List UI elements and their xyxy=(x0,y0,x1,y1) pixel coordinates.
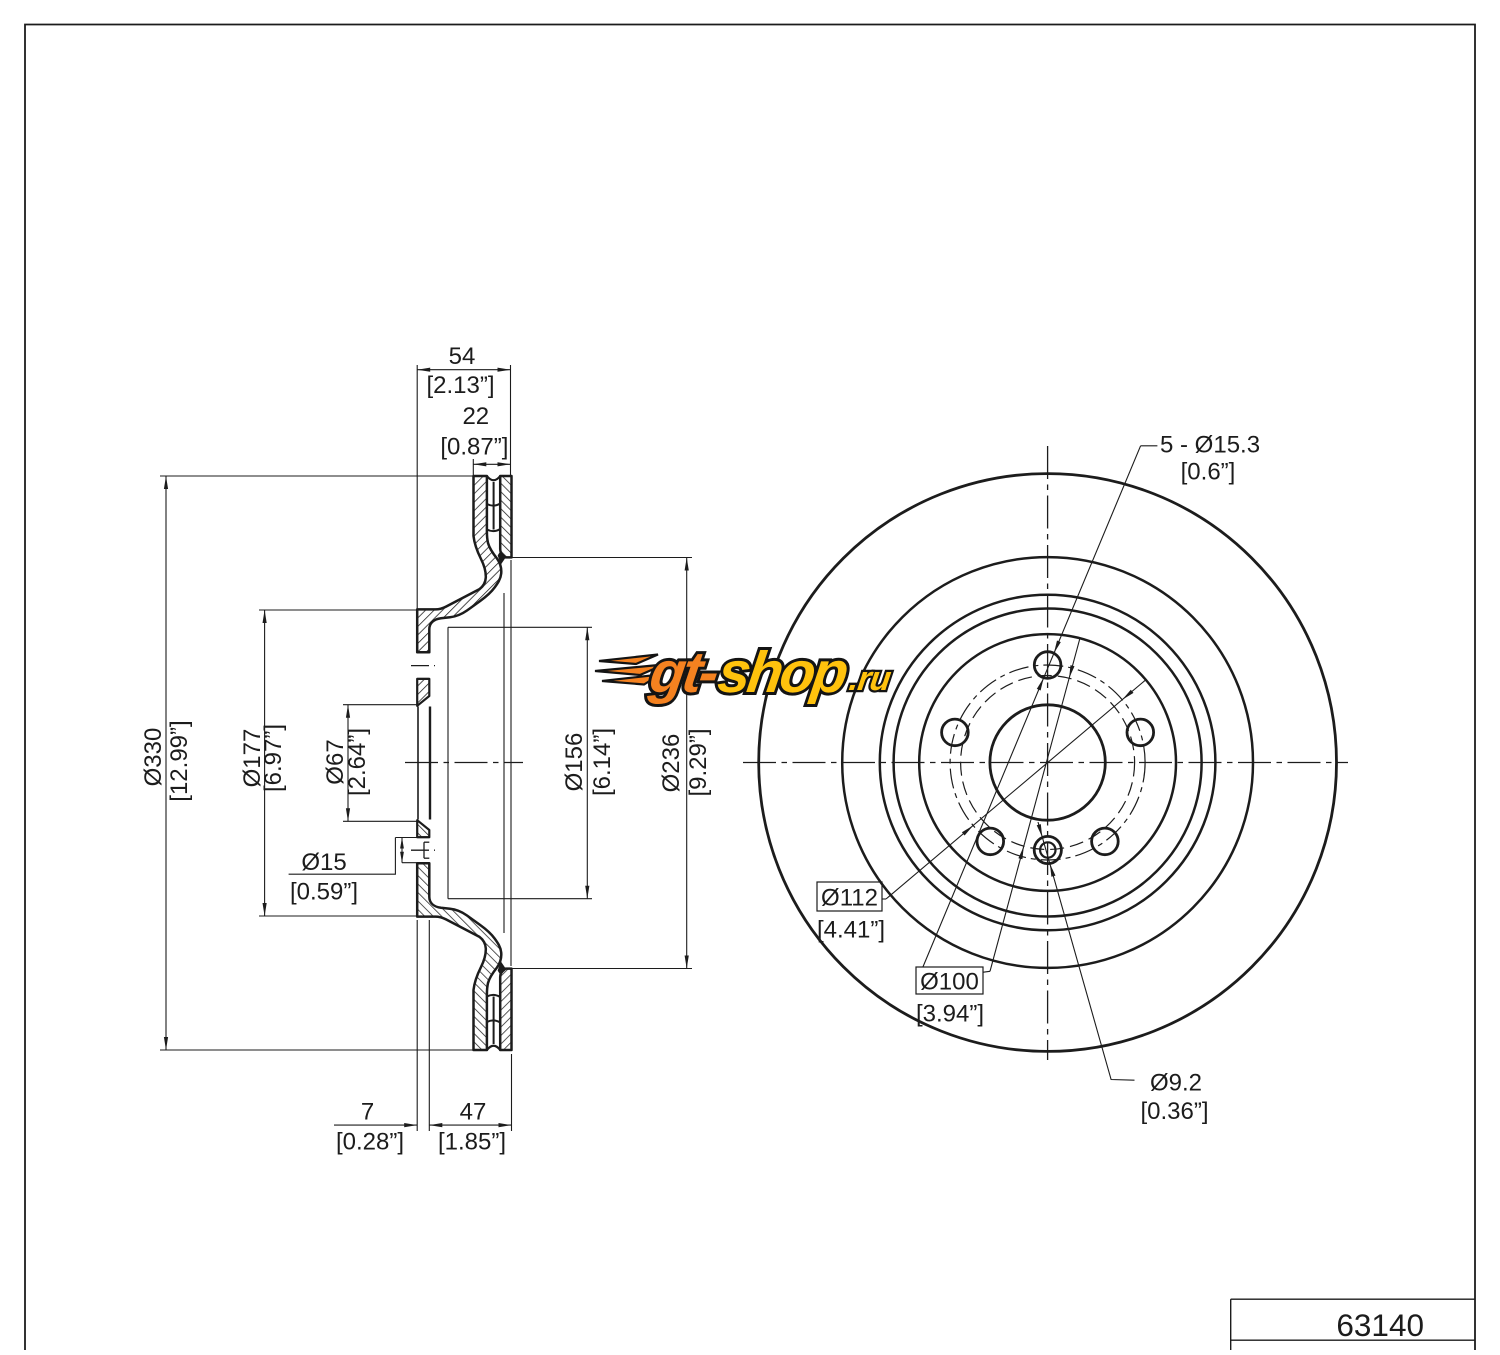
dim 7/47 extension lines xyxy=(416,920,418,1131)
dim 7 line xyxy=(334,1124,417,1126)
dim Ø236 line xyxy=(686,558,688,969)
svg-text:[4.41”]: [4.41”] xyxy=(817,917,885,944)
pin hole step xyxy=(423,842,425,858)
hat cone junction edge xyxy=(447,627,449,898)
svg-text:[0.6”]: [0.6”] xyxy=(1181,459,1236,486)
section lower hat body xyxy=(417,863,501,1050)
svg-text:Ø236: Ø236 xyxy=(658,734,685,793)
arrow on Ø112 circle upper-right xyxy=(1122,690,1133,700)
vent vane cuts lower xyxy=(487,1020,500,1022)
dim 22 arrow left xyxy=(473,462,486,466)
svg-text:22: 22 xyxy=(462,403,489,430)
svg-text:54: 54 xyxy=(449,343,476,370)
title block xyxy=(1231,1298,1475,1300)
dim Ø177 extension lines xyxy=(259,609,417,611)
dim Ø67 arrow up xyxy=(346,705,350,718)
dim line Ø112 xyxy=(886,680,1145,899)
svg-text:Ø112: Ø112 xyxy=(821,885,878,912)
dim 22 arrow right xyxy=(498,462,511,466)
dim Ø156 arrow up xyxy=(585,627,589,640)
outer circle Ø330 xyxy=(759,474,1337,1052)
dim 47 line xyxy=(429,1124,511,1126)
arrow at bolt hole bottom xyxy=(1037,678,1044,691)
arrow at bolt hole top xyxy=(1054,641,1061,654)
dim 22 line xyxy=(473,463,510,465)
dim Ø330 line xyxy=(165,476,167,1050)
front view centerline horizontal xyxy=(743,762,1348,764)
bolt hole Ø15.3 upper right xyxy=(1127,719,1154,746)
dim 47 arrow left xyxy=(429,1123,442,1127)
dim 54 arrow right xyxy=(498,368,511,372)
label Ø100 boxed xyxy=(916,967,983,994)
vent entrance notch top xyxy=(487,476,500,480)
flange right face edge through bore xyxy=(429,707,431,820)
svg-text:[0.59”]: [0.59”] xyxy=(290,879,358,906)
svg-text:[0.87”]: [0.87”] xyxy=(440,434,508,461)
bolt hole Ø15.3 lower right xyxy=(1092,828,1119,855)
left view horizontal centerline xyxy=(405,762,523,764)
section lower right plate xyxy=(500,969,511,1050)
section upper corner wedge xyxy=(498,552,505,564)
dim Ø15 extension lines xyxy=(395,837,421,839)
ring inner cylinder edge xyxy=(510,560,512,966)
hat flange circle Ø177 xyxy=(894,609,1202,917)
outboard plate inner face edge xyxy=(503,593,505,933)
svg-text:Ø15: Ø15 xyxy=(301,849,346,876)
dim 22 extension line xyxy=(472,459,474,476)
dim Ø177 arrow up xyxy=(263,610,267,623)
dim Ø156 line xyxy=(586,627,588,898)
leader 5-Ø15.3 / Ø100-box shared line xyxy=(923,446,1141,967)
hat step circle xyxy=(919,634,1176,891)
arrow at pin hole bottom xyxy=(1050,864,1056,877)
dim Ø177 arrow down xyxy=(263,903,267,916)
lower pin hole edges xyxy=(417,836,429,838)
friction inner circle Ø236 xyxy=(842,557,1253,968)
svg-text:[3.94”]: [3.94”] xyxy=(916,1001,984,1028)
dim Ø67 extension lines xyxy=(343,704,417,706)
dim Ø67 arrow down xyxy=(346,808,350,821)
dim Ø236 arrow down xyxy=(685,956,689,969)
dim 54 arrow left xyxy=(417,368,430,372)
arrow on Ø100 circle lower-left xyxy=(1018,846,1023,859)
dim Ø330 arrow up xyxy=(164,476,168,489)
section lower flange piece above pin hole xyxy=(417,820,429,837)
bolt hole Ø15.3 lower left xyxy=(977,828,1004,855)
lower hole centerline xyxy=(411,849,435,851)
drum inner silhouette lower xyxy=(448,898,592,900)
dim Ø15 arrow up xyxy=(400,838,404,849)
svg-text:[0.36”]: [0.36”] xyxy=(1140,1098,1208,1125)
hat shoulder circle xyxy=(880,595,1216,931)
logo gt-shop.ru watermark xyxy=(595,640,897,705)
svg-text:gt-: gt- xyxy=(645,640,722,705)
arrow at pin hole top xyxy=(1037,824,1043,837)
dim Ø330 arrow down xyxy=(164,1037,168,1050)
dim Ø236 extension lines xyxy=(505,557,692,559)
leader Ø9.2 xyxy=(1038,822,1135,1080)
arrow on Ø112 circle lower-left xyxy=(962,826,973,836)
svg-text:[2.13”]: [2.13”] xyxy=(426,372,494,399)
section lower corner wedge xyxy=(498,963,505,975)
svg-text:63140: 63140 xyxy=(1336,1307,1424,1343)
section upper right plate xyxy=(500,476,511,557)
svg-text:47: 47 xyxy=(460,1099,487,1126)
arrow on Ø100 circle upper-right xyxy=(1069,665,1074,678)
upper hole centerline xyxy=(411,665,435,667)
upper bolt hole edges xyxy=(417,651,429,653)
dim line Ø100 xyxy=(990,638,1080,971)
svg-text:Ø9.2: Ø9.2 xyxy=(1150,1070,1202,1097)
bolt hole Ø15.3 upper left xyxy=(942,719,969,746)
svg-text:[9.29”]: [9.29”] xyxy=(685,728,712,796)
vent entrance notch bottom xyxy=(487,1046,500,1050)
dim Ø67 line xyxy=(347,705,349,822)
dim Ø156 arrow down xyxy=(585,886,589,899)
bolt circle Ø112 dash-dot xyxy=(950,665,1145,860)
svg-text:[1.85”]: [1.85”] xyxy=(438,1129,506,1156)
svg-text:shop: shop xyxy=(714,640,851,705)
dim Ø177 line xyxy=(264,610,266,916)
svg-text:[6.97”]: [6.97”] xyxy=(260,724,287,792)
svg-text:[2.64”]: [2.64”] xyxy=(344,728,371,796)
vent vane mid-line lower xyxy=(493,997,495,1045)
section upper hat body xyxy=(417,476,501,652)
dim 54 extension lines xyxy=(416,365,418,610)
dim 54 line xyxy=(417,369,510,371)
flange left face edge through bore xyxy=(417,707,419,820)
svg-text:Ø100: Ø100 xyxy=(920,969,979,996)
center bore Ø67 xyxy=(990,705,1105,820)
pin circle Ø100 dashed xyxy=(961,676,1135,850)
svg-text:[6.14”]: [6.14”] xyxy=(589,728,616,796)
dim Ø236 arrow up xyxy=(685,558,689,571)
vent vane cuts upper xyxy=(487,504,500,506)
dim Ø15 arrow down xyxy=(400,852,404,863)
logo speed stripes xyxy=(599,655,658,665)
svg-text:5 - Ø15.3: 5 - Ø15.3 xyxy=(1160,432,1260,459)
front view centerline vertical xyxy=(1047,446,1049,1060)
vent vane mid-line upper xyxy=(493,482,495,530)
svg-text:[0.28”]: [0.28”] xyxy=(336,1129,404,1156)
svg-text:.ru: .ru xyxy=(847,660,894,698)
dim Ø15 leader xyxy=(289,838,396,875)
drum inner silhouette upper xyxy=(448,626,592,628)
svg-text:[12.99”]: [12.99”] xyxy=(166,720,193,801)
dim 7 arrow xyxy=(404,1123,417,1127)
pin hole Ø15 counterbore xyxy=(1034,836,1061,863)
section upper flange piece below bolt hole xyxy=(417,679,429,706)
dim Ø15 arrow line xyxy=(401,838,403,863)
svg-text:Ø330: Ø330 xyxy=(140,728,167,787)
dim Ø330 extension lines xyxy=(160,475,474,477)
label Ø112 boxed xyxy=(817,882,882,911)
svg-text:7: 7 xyxy=(361,1099,374,1126)
bolt hole Ø15.3 top xyxy=(1034,652,1061,679)
dim 47 arrow right xyxy=(499,1123,512,1127)
svg-text:Ø156: Ø156 xyxy=(561,733,588,792)
pin hole Ø9.2 xyxy=(1040,842,1055,857)
